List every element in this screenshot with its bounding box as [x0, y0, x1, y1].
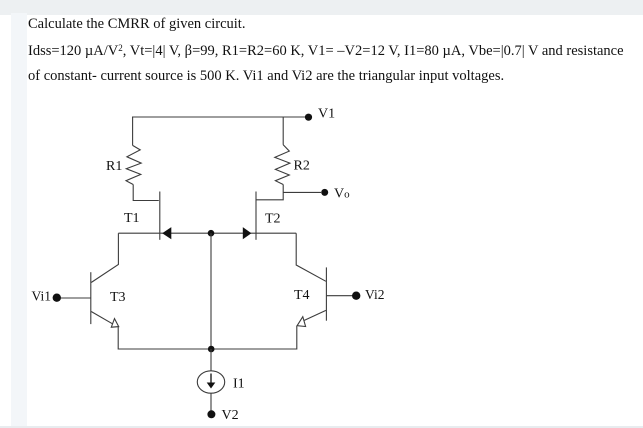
wire T3 emitter drop: [118, 327, 211, 349]
svg-text:Vo: Vo: [334, 187, 350, 202]
svg-text:T2: T2: [265, 212, 281, 227]
arrow T3 emitter: [111, 319, 118, 328]
node gate center junction: [208, 230, 215, 237]
arrow T1 gate: [162, 227, 171, 239]
arrow T4 emitter: [297, 317, 306, 327]
wire current source to V2: [210, 393, 212, 414]
wire R1 top drop: [132, 117, 134, 145]
svg-text:I1: I1: [233, 377, 245, 392]
wire T4 emitter: [304, 310, 326, 320]
node Vi2: [352, 292, 360, 300]
wire R2 top drop: [282, 117, 284, 145]
svg-text:T1: T1: [124, 211, 140, 226]
svg-text:V1: V1: [318, 107, 335, 122]
node Vi1: [53, 294, 61, 302]
transistor T1 channel bar: [159, 192, 161, 240]
wire T4 collector: [296, 233, 326, 281]
transistor T4 base bar: [325, 267, 327, 320]
svg-text:Vi1: Vi1: [32, 289, 51, 304]
current source I1 arrow: [210, 374, 212, 384]
node emitter bus junction: [208, 346, 215, 353]
wire T3 collector: [91, 233, 118, 282]
wire top rail: [132, 116, 309, 118]
wire R2 bottom to T2 drain: [257, 185, 284, 200]
resistor R2: [275, 145, 290, 185]
wire center tail: [210, 233, 212, 349]
wire T3 emitter: [91, 312, 112, 324]
arrow T2 gate: [243, 227, 252, 239]
svg-text:V2: V2: [222, 408, 239, 423]
wire R1 bottom to T1 drain: [133, 185, 159, 201]
svg-text:T3: T3: [110, 290, 126, 305]
svg-text:R2: R2: [294, 159, 310, 174]
resistor R1: [126, 145, 141, 184]
current source I1 circle: [197, 371, 224, 393]
wire T4 base: [326, 295, 352, 297]
svg-text:T4: T4: [294, 288, 310, 303]
wire Vo stub: [283, 191, 321, 193]
transistor T2 channel bar: [255, 192, 257, 240]
wire T3 base: [60, 297, 90, 299]
wire to current source: [210, 349, 212, 371]
wire gate bus: [118, 232, 296, 234]
svg-text:Vi2: Vi2: [365, 287, 384, 302]
wire T4 emitter drop: [211, 326, 297, 349]
node V1: [305, 114, 312, 121]
node Vo: [321, 189, 328, 196]
node V2: [207, 410, 215, 418]
transistor T3 base bar: [90, 272, 92, 324]
svg-text:R1: R1: [106, 159, 122, 174]
